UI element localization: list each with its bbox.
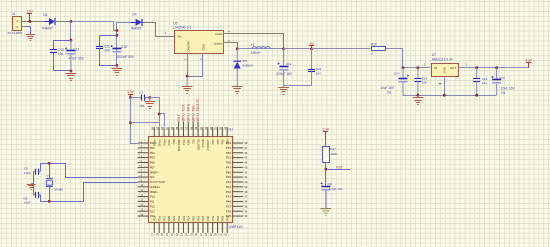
wire n9 to R20 bbox=[312, 48, 371, 50]
svg-text:P16: P16 bbox=[157, 215, 161, 221]
wire to R17 bbox=[325, 138, 327, 147]
svg-text:OUT: OUT bbox=[450, 66, 457, 70]
svg-text:NL: NL bbox=[502, 91, 506, 95]
svg-text:DVcc: DVcc bbox=[157, 139, 161, 146]
junction n13 bbox=[495, 66, 498, 69]
svg-text:C20: C20 bbox=[394, 72, 400, 76]
svg-text:P65: P65 bbox=[150, 156, 155, 160]
svg-text:P57: P57 bbox=[211, 139, 215, 145]
ground G9 bbox=[321, 208, 332, 210]
capacitor C13 bbox=[417, 68, 419, 79]
regulator U5 bbox=[175, 31, 224, 54]
svg-text:P31: P31 bbox=[211, 215, 215, 221]
svg-text:P26: P26 bbox=[196, 215, 200, 221]
wire n8-n9 bbox=[284, 48, 312, 50]
wire to G2 bbox=[70, 71, 72, 74]
svg-text:12V: 12V bbox=[27, 9, 34, 13]
capacitor C24 bbox=[496, 68, 498, 80]
svg-text:P51: P51 bbox=[226, 156, 231, 160]
svg-text:P33: P33 bbox=[221, 215, 225, 221]
svg-text:P47: P47 bbox=[226, 165, 231, 169]
U5 pin2 output wire bbox=[224, 43, 238, 49]
svg-text:C9: C9 bbox=[328, 182, 332, 186]
diode D4 bbox=[131, 22, 136, 24]
svg-text:P66: P66 bbox=[150, 161, 155, 165]
capacitor C2 bbox=[131, 97, 142, 99]
capacitor C17 bbox=[70, 40, 72, 50]
svg-text:TDI: TDI bbox=[191, 139, 195, 144]
svg-text:IN4007: IN4007 bbox=[42, 27, 53, 31]
svg-text:XT2OUT: XT2OUT bbox=[206, 139, 210, 151]
junction n6 bbox=[116, 64, 119, 67]
svg-text:P20: P20 bbox=[167, 215, 171, 221]
ground rail bbox=[403, 95, 497, 97]
capacitor C10 bbox=[50, 49, 57, 51]
junction n4 bbox=[116, 29, 119, 32]
svg-text:P24: P24 bbox=[187, 215, 191, 221]
svg-text:P32: P32 bbox=[216, 215, 220, 221]
svg-text:R20: R20 bbox=[371, 42, 377, 46]
svg-text:XT2IN: XT2IN bbox=[201, 139, 205, 147]
capacitor C11 bbox=[96, 46, 103, 48]
svg-text:P50: P50 bbox=[226, 139, 230, 145]
diode D6 bbox=[44, 21, 49, 23]
svg-text:104: 104 bbox=[139, 104, 144, 108]
svg-text:100K: 100K bbox=[330, 152, 338, 156]
junction n8 bbox=[282, 47, 285, 50]
junction n9 bbox=[310, 47, 313, 50]
junction xt1 bbox=[48, 162, 51, 165]
svg-text:MPU TMS: MPU TMS bbox=[187, 103, 191, 122]
svg-text:4.7uF 10V: 4.7uF 10V bbox=[329, 187, 343, 191]
svg-text:P23: P23 bbox=[182, 215, 186, 221]
svg-text:C18: C18 bbox=[121, 45, 127, 49]
wire D6 cathode bbox=[55, 21, 71, 23]
svg-text:AMS1117-3.3V: AMS1117-3.3V bbox=[432, 58, 454, 62]
wire J4 pin2 to ground bbox=[27, 27, 31, 35]
svg-text:P36: P36 bbox=[226, 209, 231, 213]
ground G1 at J4 bbox=[26, 34, 35, 36]
resistor R17 bbox=[323, 147, 330, 163]
junction n18 bbox=[148, 96, 151, 99]
connector J4 bbox=[13, 17, 22, 31]
svg-text:MPU TCK: MPU TCK bbox=[182, 103, 186, 121]
svg-text:C19: C19 bbox=[286, 62, 292, 66]
svg-text:back: back bbox=[215, 32, 222, 36]
mcu U1 bbox=[149, 137, 233, 223]
wire C10 bottom bbox=[54, 53, 71, 71]
svg-text:P17: P17 bbox=[162, 215, 166, 221]
svg-text:3.3V: 3.3V bbox=[127, 90, 135, 94]
svg-text:1000uF 50V: 1000uF 50V bbox=[117, 55, 135, 59]
U5 pin3 wire bbox=[188, 54, 203, 77]
ground G7 bbox=[149, 98, 151, 102]
junction U5 gnd bbox=[186, 75, 189, 78]
power port 3.3V mcu bbox=[130, 95, 132, 98]
svg-text:P56: P56 bbox=[216, 139, 220, 145]
wire node to C-group2 bbox=[71, 22, 132, 31]
wire to L1 bbox=[238, 48, 284, 50]
svg-text:P44: P44 bbox=[226, 180, 231, 184]
wire C11 bottom bbox=[100, 49, 117, 66]
junction n2 bbox=[70, 39, 73, 42]
svg-text:TCK: TCK bbox=[182, 139, 186, 145]
wire R20 to U7 bbox=[386, 49, 403, 68]
svg-text:XOUT/TCLK: XOUT/TCLK bbox=[150, 180, 166, 184]
svg-text:P11: P11 bbox=[150, 200, 155, 204]
svg-text:D5: D5 bbox=[243, 59, 247, 63]
svg-text:10uF 16V: 10uF 16V bbox=[501, 87, 516, 91]
svg-text:430F149: 430F149 bbox=[229, 225, 242, 229]
ground G3 bbox=[112, 68, 123, 70]
svg-text:C17: C17 bbox=[73, 48, 79, 52]
svg-text:104: 104 bbox=[482, 81, 487, 85]
wire rail down bbox=[131, 98, 138, 144]
svg-text:104: 104 bbox=[316, 71, 321, 75]
svg-text:LM2596-3.3: LM2596-3.3 bbox=[173, 26, 191, 30]
svg-text:Y1: Y1 bbox=[46, 174, 50, 178]
svg-text:AC 14-280V: AC 14-280V bbox=[7, 31, 22, 35]
svg-text:P15: P15 bbox=[153, 215, 157, 221]
junction n12 bbox=[475, 66, 478, 69]
junction n3 bbox=[70, 70, 73, 73]
wire C19 to G6 bbox=[283, 70, 285, 87]
svg-text:ON/OFF: ON/OFF bbox=[187, 40, 191, 51]
svg-text:P30: P30 bbox=[206, 215, 210, 221]
wire D4 to U5 bbox=[143, 23, 175, 37]
junction n1 bbox=[70, 20, 73, 23]
svg-text:AVcc: AVcc bbox=[167, 139, 171, 146]
junction xt2 bbox=[48, 200, 51, 203]
svg-text:100uH: 100uH bbox=[251, 51, 261, 55]
power port 12V bbox=[29, 14, 31, 22]
junction n17 bbox=[129, 96, 132, 99]
junction n19 bbox=[158, 113, 161, 116]
svg-text:P22: P22 bbox=[177, 215, 181, 221]
svg-text:10pF: 10pF bbox=[24, 171, 31, 175]
svg-text:C2: C2 bbox=[139, 91, 143, 95]
svg-text:P46: P46 bbox=[226, 170, 231, 174]
wire xtal top bbox=[41, 164, 138, 178]
wire xtal bottom bbox=[41, 183, 138, 202]
svg-text:RST/NMI: RST/NMI bbox=[177, 139, 181, 151]
svg-text:D6: D6 bbox=[43, 13, 47, 17]
U5 pin4 feedback wire bbox=[224, 34, 284, 49]
wire D5 to G5 bbox=[236, 69, 238, 87]
svg-text:IN: IN bbox=[434, 66, 437, 70]
wire jog to pin bbox=[160, 114, 165, 127]
svg-text:P55: P55 bbox=[221, 139, 225, 145]
junction n10 bbox=[402, 66, 405, 69]
svg-text:104: 104 bbox=[104, 48, 110, 52]
capacitor C19 bbox=[283, 49, 285, 66]
junction n5 bbox=[116, 34, 119, 37]
svg-text:VREF-: VREF- bbox=[150, 190, 158, 194]
svg-text:0: 0 bbox=[371, 52, 373, 56]
svg-text:P42: P42 bbox=[226, 190, 231, 194]
diode D5 bbox=[236, 49, 238, 61]
svg-text:MPU TDO/TI: MPU TDO/TI bbox=[196, 98, 200, 122]
capacitor C20 bbox=[402, 68, 404, 78]
junction n16 bbox=[475, 94, 478, 97]
svg-text:P41: P41 bbox=[226, 195, 231, 199]
svg-text:P40: P40 bbox=[226, 200, 231, 204]
U7 gnd wire bbox=[444, 78, 446, 96]
wire R17 to node bbox=[325, 163, 327, 170]
wire to G3 bbox=[116, 65, 118, 68]
capacitor C12 bbox=[311, 49, 313, 69]
wire to C11 bbox=[100, 36, 117, 47]
svg-text:104: 104 bbox=[422, 81, 427, 85]
capacitor C18 bbox=[112, 48, 121, 50]
svg-text:P10: P10 bbox=[150, 195, 155, 199]
svg-text:P21: P21 bbox=[172, 215, 176, 221]
wire n18 right bbox=[150, 98, 160, 127]
svg-text:MPU TDI: MPU TDI bbox=[191, 105, 195, 122]
svg-text:10pF: 10pF bbox=[24, 201, 31, 205]
svg-text:TDO/TDI: TDO/TDI bbox=[196, 139, 200, 151]
wire in rail bbox=[403, 67, 431, 69]
svg-text:5V: 5V bbox=[310, 42, 315, 46]
junction at 12V bbox=[29, 20, 32, 23]
svg-text:P50: P50 bbox=[226, 161, 231, 165]
svg-text:7.3728M: 7.3728M bbox=[52, 188, 64, 192]
U5 pin5 wire bbox=[187, 54, 189, 77]
svg-text:P45: P45 bbox=[226, 175, 231, 179]
svg-text:IN5824: IN5824 bbox=[243, 63, 253, 67]
svg-text:P13: P13 bbox=[150, 209, 155, 213]
junction n21 bbox=[325, 168, 328, 171]
wire to G10 bbox=[417, 95, 419, 98]
ground G6 bbox=[278, 87, 289, 89]
svg-text:VeREF+: VeREF+ bbox=[150, 185, 161, 189]
svg-text:R17: R17 bbox=[330, 147, 336, 151]
svg-text:XIN: XIN bbox=[150, 175, 155, 179]
svg-text:DVss: DVss bbox=[153, 139, 157, 146]
capacitor C9 bbox=[321, 186, 330, 188]
power port 5V bbox=[311, 46, 313, 49]
wire to G4 bbox=[186, 76, 188, 86]
capacitor C14 bbox=[476, 68, 478, 79]
svg-text:AVss: AVss bbox=[162, 139, 166, 146]
svg-text:P67: P67 bbox=[150, 165, 155, 169]
svg-text:IN4007: IN4007 bbox=[131, 27, 142, 31]
svg-text:P60: P60 bbox=[172, 139, 176, 145]
svg-text:P27: P27 bbox=[201, 215, 205, 221]
wire n20 branch bbox=[131, 122, 160, 124]
pin number 1 U7 bbox=[439, 83, 442, 85]
wire C10 branch bbox=[70, 22, 72, 41]
svg-text:D4: D4 bbox=[132, 12, 136, 16]
svg-text:P37: P37 bbox=[226, 204, 231, 208]
ground G2 bbox=[66, 73, 77, 75]
svg-text:P43: P43 bbox=[226, 185, 231, 189]
junction n11 bbox=[417, 66, 420, 69]
capacitor C5 bbox=[33, 171, 36, 173]
junction n7 bbox=[236, 47, 239, 50]
svg-text:U7: U7 bbox=[432, 53, 436, 57]
inductor L1 bbox=[252, 47, 256, 49]
svg-text:10uF 16V: 10uF 16V bbox=[380, 86, 395, 90]
svg-text:C24: C24 bbox=[499, 76, 505, 80]
svg-text:NL: NL bbox=[387, 90, 391, 94]
svg-text:J4: J4 bbox=[12, 12, 16, 16]
wire caps common bbox=[33, 172, 35, 195]
resistor R20 bbox=[372, 47, 386, 51]
svg-text:RST: RST bbox=[177, 114, 181, 122]
capacitor C6 bbox=[33, 194, 36, 196]
power port 3.3V rst bbox=[325, 132, 327, 138]
svg-text:220uF 16V: 220uF 16V bbox=[276, 72, 292, 76]
svg-text:Vin: Vin bbox=[177, 35, 182, 39]
crystal Y1 bbox=[49, 163, 51, 178]
svg-text:3.3V: 3.3V bbox=[525, 59, 533, 63]
svg-text:P25: P25 bbox=[191, 215, 195, 221]
junction n20 bbox=[129, 121, 132, 124]
svg-text:3.3V: 3.3V bbox=[323, 128, 330, 132]
ground G10 bbox=[413, 97, 424, 99]
svg-text:TMS: TMS bbox=[187, 139, 191, 145]
svg-text:P64: P64 bbox=[150, 151, 155, 155]
svg-text:GND: GND bbox=[443, 67, 447, 73]
svg-text:P53: P53 bbox=[226, 146, 231, 150]
U7 out wire bbox=[459, 67, 529, 69]
junction n14 bbox=[417, 94, 420, 97]
svg-text:U1: U1 bbox=[229, 128, 234, 132]
svg-text:P12: P12 bbox=[150, 204, 155, 208]
svg-text:104: 104 bbox=[58, 52, 64, 56]
regulator U7 bbox=[432, 64, 459, 77]
svg-text:L1: L1 bbox=[251, 43, 255, 47]
ground G4 bbox=[182, 86, 193, 88]
wire RST stub bbox=[326, 169, 351, 171]
wire to C10 bbox=[54, 41, 71, 50]
ground G5 bbox=[232, 86, 243, 88]
wire C-group2 vertical bbox=[116, 31, 118, 66]
wire to C9 bbox=[325, 170, 327, 186]
wire C12 to gnd rail bbox=[284, 72, 312, 86]
ground G8 bbox=[31, 182, 33, 184]
svg-text:output: output bbox=[214, 42, 223, 46]
svg-text:VREF+: VREF+ bbox=[150, 170, 159, 174]
wire main input bbox=[27, 21, 49, 23]
svg-text:P34: P34 bbox=[226, 215, 230, 221]
svg-text:P52: P52 bbox=[226, 151, 231, 155]
power port 3.3V out bbox=[528, 63, 530, 68]
svg-text:GND: GND bbox=[202, 44, 206, 50]
junction n15 bbox=[443, 94, 446, 97]
svg-text:RST: RST bbox=[336, 165, 343, 169]
